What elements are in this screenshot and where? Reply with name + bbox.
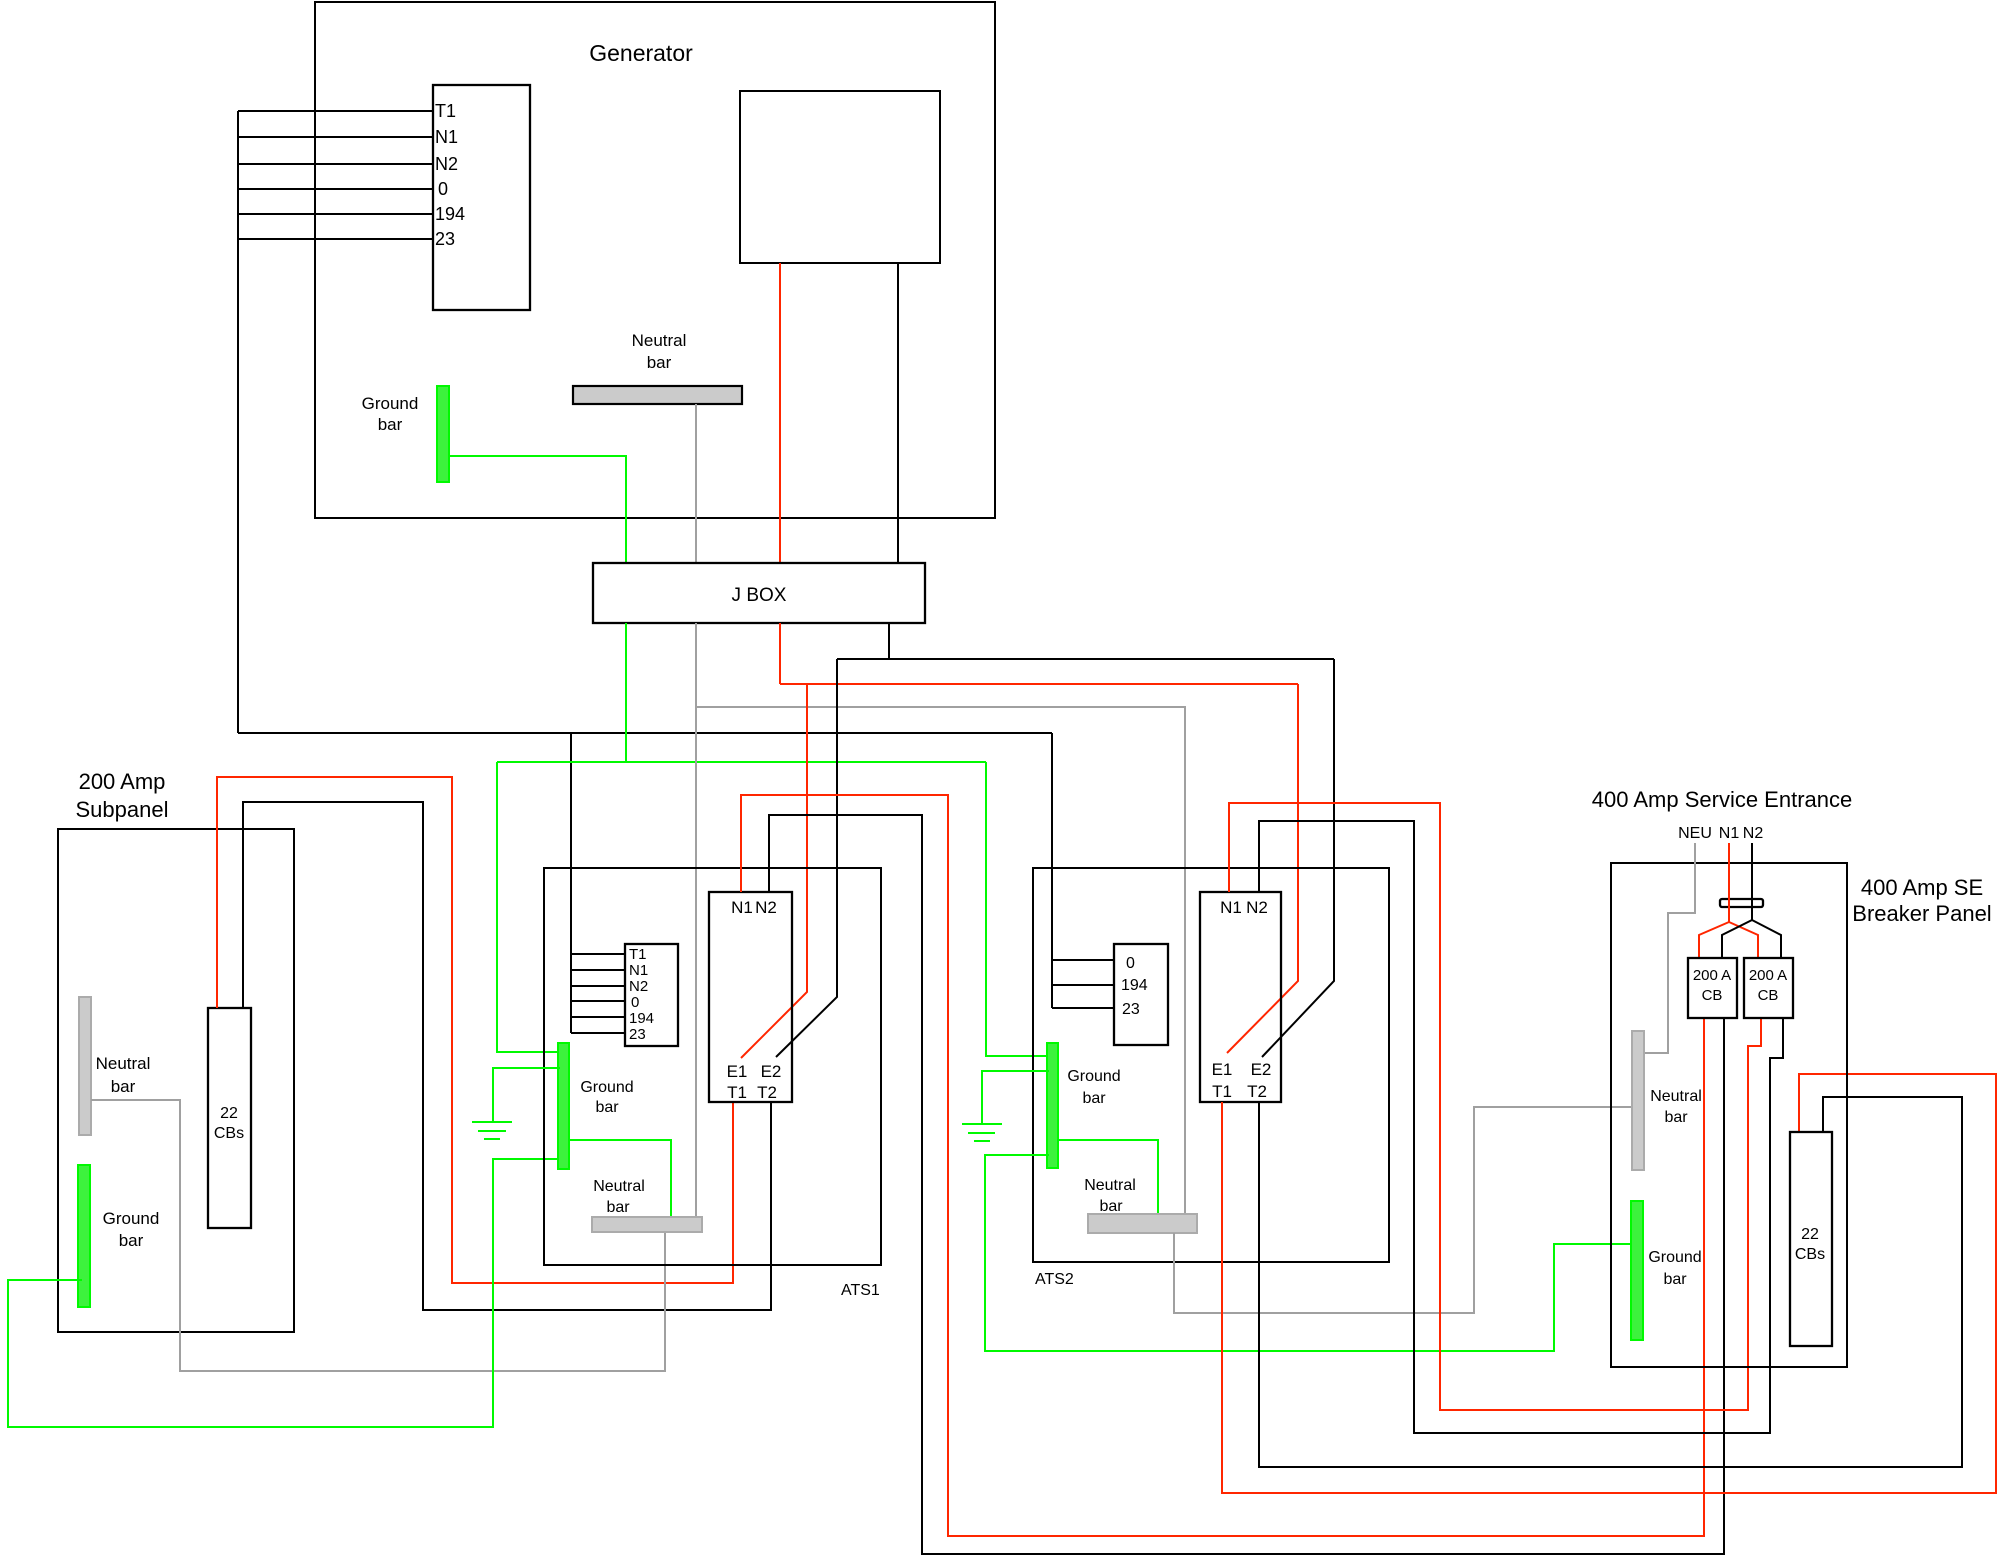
wire: ATS1 terminal stub 194 [571,1016,625,1018]
wire: generator output black hot to J BOX [897,263,899,563]
wire: ATS1 terminal stub T1 [571,953,625,955]
svg-text:bar: bar [1099,1198,1123,1215]
svg-text:NEU: NEU [1678,825,1712,842]
wire: green ground drop to ATS1 ground bar [497,762,560,1052]
wire: red hot branch to ATS1 E1 [741,684,807,1058]
ground symbol at ATS2 [962,1124,1002,1141]
generator ground bar [437,386,449,482]
wire: service N1 drop (red) split to both 200A CBs [1699,843,1729,958]
svg-text:CB: CB [1702,987,1723,1004]
svg-text:J BOX: J BOX [732,585,787,606]
svg-text:400 Amp Service Entrance: 400 Amp Service Entrance [1592,787,1852,812]
wire: generator output red hot to J BOX [779,263,781,563]
svg-text:22: 22 [220,1105,238,1122]
wire: ATS1 terminal stub 0 [571,1000,625,1002]
wire: red utility N1 into ATS1 (from SE panel left CB) [741,795,1704,1536]
svg-text:bar: bar [111,1077,136,1096]
svg-text:T1: T1 [1212,1082,1232,1101]
svg-text:23: 23 [435,229,455,249]
svg-text:N1: N1 [1719,825,1740,842]
SE neutral bar [1632,1031,1644,1170]
svg-text:T2: T2 [1247,1082,1267,1101]
wire: control bus drop to ATS1 terminals [570,733,572,1033]
wire: green ground distribution horizontal [497,761,986,763]
svg-text:E2: E2 [1251,1060,1272,1079]
wire: red utility N1 into ATS2 (from SE panel right CB) [1229,803,1761,1410]
svg-text:N2: N2 [629,978,648,995]
svg-text:0: 0 [438,179,448,199]
svg-text:N2: N2 [755,898,777,917]
svg-text:194: 194 [1121,977,1148,994]
svg-text:bar: bar [378,415,403,434]
svg-text:T1: T1 [727,1083,747,1102]
svg-text:194: 194 [629,1010,654,1027]
svg-text:N2: N2 [1246,898,1268,917]
J BOX box [593,563,925,623]
wire: generator neutral to J BOX (gray) [695,404,697,563]
svg-text:N1: N1 [629,962,648,979]
svg-text:Generator: Generator [589,40,693,66]
svg-text:T1: T1 [629,946,647,963]
svg-text:E1: E1 [727,1062,748,1081]
ATS2 enclosure box [1033,868,1389,1262]
wire: red hot to ATS2 E1 [1227,684,1298,1053]
svg-text:CBs: CBs [214,1125,244,1142]
wire: control bus horizontal run to ATS units [238,732,1052,734]
wire: generator 23 stub [238,238,433,240]
ATS2 transfer switch box [1200,892,1281,1102]
wire: gray neutral interconnect subpanel to ATS1 [91,1100,665,1371]
svg-text:ATS2: ATS2 [1035,1271,1074,1288]
ATS1 transfer switch box [709,892,792,1102]
wire: ATS2 ground bar stub 2 to earth [982,1071,1049,1124]
wire: black hot to ATS2 E2 [1262,659,1334,1057]
svg-text:E1: E1 [1212,1060,1233,1079]
svg-text:bar: bar [647,353,672,372]
svg-text:194: 194 [435,204,465,224]
wire: black feed ATS1 T2 to subpanel breakers [243,802,771,1310]
svg-text:T1: T1 [435,101,456,121]
ATS1 neutral bar [592,1217,702,1232]
wire: ATS1 terminal stub N1 [571,969,625,971]
svg-text:Subpanel: Subpanel [76,797,169,822]
wire: gray neutral interconnect ATS2 to SE panel neutral bar [1174,1107,1632,1313]
SE 22 CBs box [1790,1132,1832,1346]
svg-text:N2: N2 [435,154,458,174]
svg-text:Ground: Ground [580,1079,633,1096]
wire: ATS1 ground bar stub 2 to earth [493,1068,560,1122]
generator neutral bar [573,386,742,404]
svg-text:400 Amp SE: 400 Amp SE [1861,875,1983,900]
wire: green ground interconnect subpanel to ATS1 [8,1159,560,1427]
svg-text:Neutral: Neutral [1084,1177,1136,1194]
generator terminal block box [433,85,530,310]
wire: ATS1 terminal stub N2 [571,985,625,987]
generator output block box [740,91,940,263]
svg-text:T2: T2 [757,1083,777,1102]
ATS2 ground bar [1047,1043,1058,1168]
wire: black hot horizontal run [837,658,1334,660]
ATS1 enclosure box [544,868,881,1265]
wire: black utility N2 into ATS1 (from SE panel left CB) [769,815,1724,1554]
svg-text:Ground: Ground [1067,1068,1120,1085]
svg-text:Neutral: Neutral [1650,1088,1702,1105]
svg-text:bar: bar [1082,1090,1106,1107]
svg-text:200 A: 200 A [1693,967,1731,984]
svg-text:CBs: CBs [1795,1246,1825,1263]
subpanel 22 CBs box [208,1008,251,1228]
svg-text:N2: N2 [1743,825,1764,842]
svg-text:N1: N1 [1220,898,1242,917]
svg-text:Ground: Ground [103,1209,160,1228]
wire: green ground interconnect ATS2 to SE panel ground bar [985,1155,1631,1351]
wire: black utility N2 into ATS2 (from SE panel right CB) [1259,821,1783,1433]
svg-text:bar: bar [595,1099,619,1116]
wire: service N2 drop (black) split to both 200A CBs [1722,843,1752,958]
svg-text:CB: CB [1758,987,1779,1004]
subpanel neutral bar [79,997,91,1135]
svg-text:Neutral: Neutral [632,331,687,350]
svg-text:23: 23 [1122,1001,1140,1018]
svg-text:N1: N1 [731,898,753,917]
generator enclosure box [315,2,995,518]
wire: generator T1 stub [238,110,433,112]
wire: ATS2 terminal stub 23 [1052,1007,1114,1009]
svg-text:Breaker Panel: Breaker Panel [1852,901,1991,926]
SE ground bar [1631,1201,1643,1340]
wire: generator 0 stub [238,188,433,190]
svg-text:0: 0 [1126,955,1135,972]
wire: generator control bus vertical [237,111,239,733]
svg-text:bar: bar [119,1231,144,1250]
wire: red feed ATS1 T1 to subpanel breakers [217,777,733,1283]
200 Amp Subpanel enclosure box [58,829,294,1332]
wire: ATS2 terminal stub 0 [1052,959,1114,961]
svg-text:E2: E2 [761,1062,782,1081]
ATS2 neutral bar [1088,1214,1197,1233]
svg-text:Neutral: Neutral [593,1178,645,1195]
wire: ATS1 ground-neutral bonding jumper [569,1140,671,1217]
svg-text:200 A: 200 A [1749,967,1787,984]
wire: red feed ATS2 T1 to SE panel 22 CBs [1222,1074,1996,1493]
svg-text:Neutral: Neutral [96,1054,151,1073]
wire: green ground J BOX to splice (below J BOX) [625,623,627,762]
wire: generator 194 stub [238,213,433,215]
svg-text:N1: N1 [435,127,458,147]
svg-text:bar: bar [1664,1109,1688,1126]
wire: generator N1 stub [238,136,433,138]
wire: gray neutral branch to ATS2 neutral bar [695,707,1185,1214]
wire: ATS2 terminal stub 194 [1052,984,1114,986]
wire: red hot horizontal run [780,683,1298,685]
wire: ATS1 terminal stub 23 [571,1032,625,1034]
wire: service NEU drop (gray) [1644,843,1695,1053]
wire: black hot to ATS1 E2 [776,659,837,1057]
wire: black hot below J BOX [888,623,890,659]
svg-text:Ground: Ground [1648,1249,1701,1266]
wire: generator ground to J BOX (green) [449,456,626,563]
ATS2 terminal block box [1114,944,1168,1045]
ground symbol at ATS1 [472,1122,512,1139]
SE right 200A CB box [1744,958,1793,1018]
wire: green ground drop to ATS2 ground bar [986,762,1049,1056]
svg-text:0: 0 [631,994,639,1011]
subpanel ground bar [78,1165,90,1307]
svg-text:ATS1: ATS1 [841,1282,880,1299]
svg-text:bar: bar [1663,1271,1687,1288]
400 Amp SE breaker panel enclosure box [1611,863,1847,1367]
svg-text:22: 22 [1801,1226,1819,1243]
ATS1 ground bar [558,1043,569,1169]
wire: generator N2 stub [238,163,433,165]
wire: control bus drop to ATS2 terminals [1051,733,1053,1008]
svg-text:23: 23 [629,1026,646,1043]
400A main breaker bar [1720,899,1763,907]
SE left 200A CB box [1688,958,1737,1018]
wire: gray neutral J BOX to ATS1 neutral bar [695,623,697,1217]
svg-text:200 Amp: 200 Amp [79,769,166,794]
ATS1 terminal block box [625,944,678,1046]
svg-text:bar: bar [606,1199,630,1216]
wire: red hot below J BOX [779,623,781,684]
wire: black feed ATS2 T2 to SE panel 22 CBs [1259,1097,1962,1467]
svg-text:Ground: Ground [362,394,419,413]
wire: ATS2 ground-neutral bonding jumper [1058,1140,1158,1214]
